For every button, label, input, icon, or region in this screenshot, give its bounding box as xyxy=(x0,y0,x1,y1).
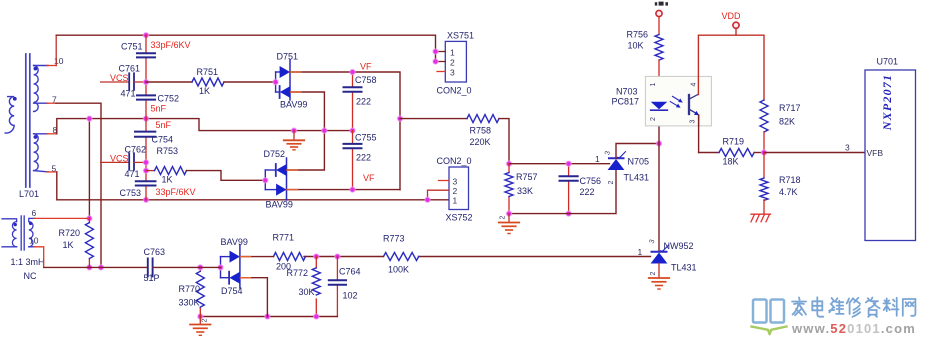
resistor R718 leads xyxy=(763,153,765,179)
wire: choke pin10 drop to bottom-left bus xyxy=(34,247,44,268)
svg-text:NW952: NW952 xyxy=(664,241,694,251)
capacitor C753 plates xyxy=(136,181,156,185)
svg-text:NXP2071: NXP2071 xyxy=(880,74,894,131)
pin stub orange, D752 outputs xyxy=(287,170,298,190)
wire: pin10 riser to top bus xyxy=(55,35,57,65)
shunt regulator N705 TL431 xyxy=(608,152,626,170)
svg-text:VF: VF xyxy=(363,173,375,183)
wire: C762 right plate to node xyxy=(134,161,146,163)
junction node (435.5,61.5) xyxy=(433,59,438,64)
wire: opto pin3 down to VFB row xyxy=(698,115,700,153)
wire: VFB row to R719 xyxy=(699,152,719,154)
svg-text:471: 471 xyxy=(125,169,140,179)
ground (earth) below R757 xyxy=(499,214,519,234)
capacitor C764 plates xyxy=(329,280,346,285)
wire: choke pin6 stub to R720 node xyxy=(34,217,89,219)
wire: C761 right plate to node xyxy=(134,81,146,83)
svg-text:L701: L701 xyxy=(19,189,39,199)
svg-text:30K: 30K xyxy=(299,287,315,297)
svg-text:3: 3 xyxy=(450,68,455,78)
wire: D751 bottom output to x=324.4 down xyxy=(290,92,324,131)
wire: node row y=163.7 to TL431 ref xyxy=(509,163,610,165)
wire: node to R753 xyxy=(146,170,155,172)
resistor R772 xyxy=(312,268,320,295)
junction node (146,118.6) xyxy=(143,116,148,121)
clipped net label above terminal xyxy=(655,2,668,6)
svg-text:R770: R770 xyxy=(179,284,201,294)
svg-text:102: 102 xyxy=(343,291,358,301)
svg-text:82K: 82K xyxy=(779,117,795,127)
pin stub red, L701 pin 8 xyxy=(47,133,57,135)
svg-text:5nF: 5nF xyxy=(151,104,167,114)
svg-text:10: 10 xyxy=(54,56,64,66)
svg-text:1: 1 xyxy=(638,247,643,257)
shunt regulator NW952 TL431 xyxy=(651,245,669,263)
resistor R757 leads xyxy=(508,164,510,214)
svg-text:BAV99: BAV99 xyxy=(280,100,307,110)
svg-text:www.520101.com: www.520101.com xyxy=(791,321,916,336)
junction node (316.3,316.5) xyxy=(314,314,319,319)
capacitor C756 leads xyxy=(568,164,570,214)
resistor R758 xyxy=(467,115,499,123)
connector XS752 box xyxy=(449,167,469,210)
svg-text:R753: R753 xyxy=(157,146,179,156)
wire: R717 to VFB node xyxy=(763,132,765,153)
svg-text:VFB: VFB xyxy=(867,148,884,158)
wire: bottom bus y=316.5 xyxy=(200,316,337,318)
svg-text:1: 1 xyxy=(650,82,657,86)
wire: pin8 riser and bus y=118.6 with step to y=130.6 xyxy=(57,119,353,134)
capacitor C761 (series in VCS1) xyxy=(129,73,134,90)
wire: node to R751 xyxy=(146,81,192,83)
svg-text:3: 3 xyxy=(845,143,850,153)
opto phototransistor xyxy=(689,94,699,126)
wire: R719 to VFB node xyxy=(754,152,764,154)
svg-text:VF: VF xyxy=(360,62,372,72)
resistor R719 xyxy=(719,149,754,157)
svg-text:222: 222 xyxy=(356,153,371,163)
transformer L701 core xyxy=(26,54,30,187)
resistor R770 leads xyxy=(199,267,201,316)
junction node (509,163.7) xyxy=(506,161,511,166)
svg-text:D754: D754 xyxy=(221,286,243,296)
junction node (89.4,118.6) xyxy=(87,116,92,121)
pin stub red, L701 pin 10 xyxy=(47,65,56,67)
resistor R720 xyxy=(85,223,93,259)
transformer L701 primary polarity dot xyxy=(13,97,17,101)
svg-text:3: 3 xyxy=(649,239,657,245)
transformer L701 lower secondary winding pins 8-5 xyxy=(34,134,48,172)
wire: VF node to R758 xyxy=(400,118,467,120)
optocoupler N703 PC817 body xyxy=(645,76,711,126)
choke left winding xyxy=(2,219,17,247)
svg-text:330K: 330K xyxy=(179,298,200,308)
wire: NW952 anode to ground xyxy=(658,264,660,278)
svg-text:BAV99: BAV99 xyxy=(266,200,293,210)
junction node (427.5,199.8) xyxy=(425,197,430,202)
wire: bottom row y=213.6 from R757 to N705 anode xyxy=(509,170,616,213)
svg-text:10K: 10K xyxy=(628,41,644,51)
svg-text:1: 1 xyxy=(595,154,600,164)
transformer L701 upper secondary winding pins 10-7 xyxy=(34,66,48,112)
junction node (400,118.6) xyxy=(397,116,402,121)
svg-text:2: 2 xyxy=(650,117,657,121)
svg-text:10: 10 xyxy=(29,236,39,246)
wire: vertical x=89.4 from bus to R720 node xyxy=(88,119,90,219)
junction node (352.5,130.6) xyxy=(350,128,355,133)
capacitor C756 plates xyxy=(560,176,578,180)
junction node (568.6,163.7) xyxy=(566,161,571,166)
wire: R773 net to NW952 ref xyxy=(419,256,651,258)
wire: terminal to R756 xyxy=(658,17,660,35)
junction node (146,82) xyxy=(143,79,148,84)
junction node (659,143.5) xyxy=(656,141,661,146)
svg-text:TL431: TL431 xyxy=(624,173,650,183)
wire: VDD rail xyxy=(698,29,764,100)
svg-text:1K: 1K xyxy=(63,240,74,250)
svg-text:VCS: VCS xyxy=(110,73,129,83)
choke right polarity dot xyxy=(29,222,32,225)
svg-text:4.7K: 4.7K xyxy=(779,187,798,197)
watermark logo: open book icon xyxy=(753,300,784,323)
wire: top bus y=35 to XS751 xyxy=(56,35,435,61)
junction node (267.4,316.5) xyxy=(265,314,270,319)
junction node (220.5,267.4) D754 input xyxy=(218,265,223,270)
wire: VCS net 2 xyxy=(101,161,129,163)
svg-text:VDD: VDD xyxy=(722,11,742,21)
ground (earth) below NW952 xyxy=(649,278,669,289)
svg-text:R718: R718 xyxy=(779,175,801,185)
svg-text:2: 2 xyxy=(608,180,615,184)
resistor R757 xyxy=(505,173,513,197)
svg-text:3: 3 xyxy=(453,177,458,187)
wire: R718 to ground xyxy=(763,200,765,214)
wire: pin7 run right and long drop x=101 xyxy=(56,103,101,267)
svg-text:R772: R772 xyxy=(287,268,309,278)
diode D752 (BAV99 dual) xyxy=(265,158,286,200)
choke transformer 1:1 3mH core xyxy=(21,216,24,250)
pin stub orange, D751 outputs xyxy=(291,72,302,92)
wire: D752 top output up to bus xyxy=(287,131,325,170)
junction node (352.5,189.6) xyxy=(350,187,355,192)
transformer L701 lower secondary polarity dot xyxy=(34,135,38,139)
svg-text:2: 2 xyxy=(650,271,657,275)
svg-text:CON2_0: CON2_0 xyxy=(437,156,472,166)
svg-text:33K: 33K xyxy=(517,186,533,196)
wire: D754 top output to R771 xyxy=(240,256,274,258)
resistor R773 xyxy=(384,253,419,261)
svg-text:100K: 100K xyxy=(388,265,409,275)
svg-text:C758: C758 xyxy=(355,75,377,85)
svg-text:C756: C756 xyxy=(580,176,602,186)
terminal circle VDD xyxy=(733,22,739,28)
svg-text:CON2_0: CON2_0 xyxy=(437,86,472,96)
resistor R772 leads xyxy=(315,257,317,317)
wire: opto pin2 down through node to NW952 cathode xyxy=(658,110,660,251)
watermark logo: green book base xyxy=(752,327,787,335)
svg-text:222: 222 xyxy=(580,187,595,197)
svg-text:2: 2 xyxy=(453,186,458,196)
junction node (316.3,256.5) xyxy=(314,254,319,259)
resistor R756 xyxy=(655,35,663,61)
IC U701 box xyxy=(865,70,916,241)
wire: R758 to corner x=509 down to node xyxy=(499,119,509,164)
resistor R720 leads xyxy=(88,218,90,267)
svg-text:D752: D752 xyxy=(264,149,286,159)
capacitor C763 (series) xyxy=(148,258,153,276)
svg-text:R771: R771 xyxy=(273,233,295,243)
svg-text:3: 3 xyxy=(690,119,697,123)
svg-text:18K: 18K xyxy=(723,157,739,167)
svg-text:222: 222 xyxy=(356,97,371,107)
svg-text:33pF/6KV: 33pF/6KV xyxy=(151,40,191,50)
capacitor C754 plates xyxy=(135,132,155,137)
svg-text:2: 2 xyxy=(500,215,507,219)
svg-text:220K: 220K xyxy=(470,137,491,147)
svg-text:2: 2 xyxy=(202,318,209,322)
junction node (89.4,267.4) xyxy=(87,265,92,270)
junction node (146,35.2) xyxy=(143,33,148,38)
svg-text:R720: R720 xyxy=(59,228,81,238)
svg-text:R758: R758 xyxy=(470,126,492,136)
capacitor C762 (series in VCS2) xyxy=(129,153,134,170)
junction node (89.4,218.4) xyxy=(87,216,92,221)
svg-text:33pF/6KV: 33pF/6KV xyxy=(156,187,196,197)
svg-text:C764: C764 xyxy=(339,267,361,277)
capacitor C751 leads (x=146 chain) xyxy=(145,35,147,200)
svg-text:TL431: TL431 xyxy=(671,263,697,273)
junction node (146,170.6) xyxy=(143,168,148,173)
resistor R771 xyxy=(274,253,306,261)
svg-text:3: 3 xyxy=(604,150,612,156)
svg-text:471: 471 xyxy=(121,89,136,99)
pin stub orange, D754 outputs xyxy=(240,257,250,278)
svg-text:51P: 51P xyxy=(144,273,160,283)
svg-text:C755: C755 xyxy=(355,133,377,143)
wire: VFB node to U701 pin 3 xyxy=(764,152,865,154)
junction node (435.5,51.5) xyxy=(433,49,438,54)
wire: XS752 pin2 jog to pin1 net xyxy=(428,190,450,200)
junction node (352.5,72) xyxy=(350,69,355,74)
svg-text:R719: R719 xyxy=(723,137,745,147)
svg-text:U701: U701 xyxy=(877,57,899,67)
wire: R756 to opto LED anode xyxy=(658,60,660,102)
wire: D754 bottom output down to bottom bus xyxy=(240,278,268,317)
junction node (324.4,130.6) xyxy=(322,128,327,133)
transformer L701 primary winding (left) xyxy=(5,97,14,133)
junction node (146,199.8) xyxy=(143,197,148,202)
diode D754 (BAV99 dual) xyxy=(221,245,240,288)
svg-text:2: 2 xyxy=(450,58,455,68)
choke left polarity dot xyxy=(14,223,17,226)
choke right winding xyxy=(29,218,35,246)
junction node (337.4,256.5) xyxy=(335,254,340,259)
capacitor C755 leads xyxy=(352,131,354,190)
capacitor C764 leads xyxy=(336,257,338,317)
wire: VCS net 1 xyxy=(101,81,129,83)
junction node (200.3,267.4) xyxy=(198,265,203,270)
junction node (294,130.6) ground tap xyxy=(291,128,296,133)
wire: D752 bottom output (VF) to x=400 xyxy=(287,189,401,191)
svg-text:N703: N703 xyxy=(616,87,638,97)
wire: C763 to D754 input xyxy=(153,266,221,268)
svg-text:R751: R751 xyxy=(197,67,219,77)
svg-text:N705: N705 xyxy=(628,157,650,167)
pin stub red, L701 pin 5 xyxy=(47,171,57,173)
pin stub red, L701 pin 7 xyxy=(47,102,56,104)
wire: D751 top output (VF) to corner x=400 xyxy=(290,72,400,119)
svg-text:C752: C752 xyxy=(158,94,180,104)
junction node (200.3,316.5) xyxy=(198,314,203,319)
watermark text 家电维修资料网 (vector strokes) xyxy=(792,297,915,317)
wire: mid row from R771 out to R773 xyxy=(304,256,384,258)
svg-text:C753: C753 xyxy=(120,188,142,198)
diode D751 (BAV99 dual) xyxy=(276,60,291,100)
connector XS751 box xyxy=(445,41,466,82)
wire: XS751 pin2 stub xyxy=(436,61,446,63)
svg-text:6: 6 xyxy=(32,208,37,218)
ground (earth) at mid bus xyxy=(284,131,304,150)
capacitor C758 plates xyxy=(344,87,362,91)
svg-text:R773: R773 xyxy=(383,234,405,244)
svg-text:C761: C761 xyxy=(119,64,141,74)
junction node (764,152.5) xyxy=(761,150,766,155)
opto LED (diode) xyxy=(651,102,668,110)
svg-text:R756: R756 xyxy=(627,30,649,40)
svg-text:C763: C763 xyxy=(144,247,166,257)
opto light arrows xyxy=(670,96,683,107)
wire: XS752 pin3 stub (n.c.) xyxy=(439,180,450,182)
svg-text:1:1 3mH: 1:1 3mH xyxy=(11,257,45,267)
junction node (275.6,82) D751 input xyxy=(273,79,278,84)
svg-text:D751: D751 xyxy=(277,52,299,62)
svg-text:1K: 1K xyxy=(162,175,173,185)
junction node (146,162.4) xyxy=(143,160,148,165)
resistor R717 xyxy=(760,100,768,132)
junction node (509,213.6) xyxy=(506,211,511,216)
ground (hatched) below R718 xyxy=(751,214,771,222)
wire: XS751 pin1 stub xyxy=(436,51,446,53)
svg-text:C762: C762 xyxy=(125,145,147,155)
svg-text:1: 1 xyxy=(453,196,458,206)
wire: pin5 drop and bus y=199.8 to XS752 pin1 xyxy=(57,172,449,200)
svg-text:PC817: PC817 xyxy=(612,97,640,107)
svg-text:R757: R757 xyxy=(516,172,538,182)
capacitor C751 plates xyxy=(137,53,155,57)
svg-text:1: 1 xyxy=(450,48,455,58)
svg-text:XS752: XS752 xyxy=(446,213,473,223)
svg-text:VCS: VCS xyxy=(110,154,129,164)
wire: R751 to D751 input xyxy=(224,81,276,83)
svg-text:XS751: XS751 xyxy=(447,31,474,41)
wire: XS751 pin3 stub (n.c.) xyxy=(437,71,445,73)
svg-text:5nF: 5nF xyxy=(156,120,172,130)
resistor R751 xyxy=(192,78,224,86)
svg-text:C754: C754 xyxy=(152,135,174,145)
svg-text:4: 4 xyxy=(691,82,698,86)
svg-text:NC: NC xyxy=(24,271,37,281)
wire: N705 cathode to node (659,143.5) xyxy=(616,144,659,159)
svg-text:C751: C751 xyxy=(121,42,143,52)
terminal circle above R756 xyxy=(656,10,662,16)
svg-text:1K: 1K xyxy=(199,86,210,96)
capacitor C752 plates xyxy=(137,95,155,99)
capacitor C755 plates xyxy=(344,144,362,148)
junction node (568.6,213.6) xyxy=(566,211,571,216)
wire: VF vertical x=400 xyxy=(399,119,401,190)
junction node (265.3,180.3) D752 input xyxy=(263,178,268,183)
resistor R770 xyxy=(196,271,204,307)
svg-text:R717: R717 xyxy=(779,103,801,113)
junction node (101,267.4) xyxy=(98,265,103,270)
resistor R753 xyxy=(155,167,187,175)
resistor R718 xyxy=(760,178,768,200)
capacitor C758 leads xyxy=(352,72,354,131)
wire: bottom-left bus y=267.4 to C763 xyxy=(44,266,148,268)
transformer L701 upper secondary polarity dot xyxy=(34,67,38,71)
wire: R753 to D752 input with jog xyxy=(187,171,266,181)
svg-text:BAV99: BAV99 xyxy=(221,237,248,247)
ground (earth) below R770 xyxy=(190,317,210,336)
